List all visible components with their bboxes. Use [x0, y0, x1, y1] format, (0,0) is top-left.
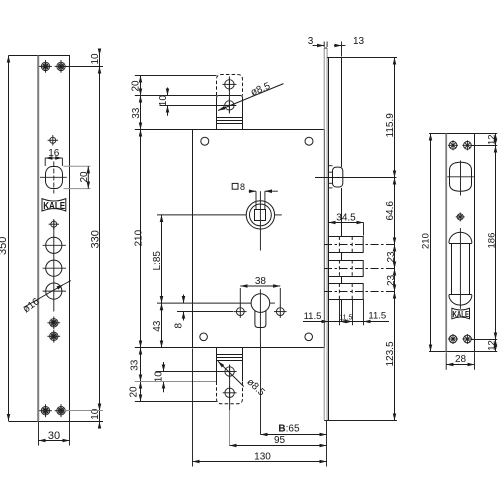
left dimension column line [140, 76, 142, 402]
svg-text:L:85: L:85 [152, 251, 163, 271]
double screw hole mid 1 [47, 316, 60, 329]
bottom mounting tab solid part [217, 348, 243, 382]
dimension 3 [308, 36, 327, 47]
top tab serrations [217, 118, 243, 124]
small hole [48, 135, 58, 145]
svg-text:12: 12 [486, 340, 497, 351]
latch centerline [315, 177, 397, 179]
follower hub U1 [157, 191, 282, 250]
svg-text:210: 210 [134, 229, 145, 246]
svg-text:64.6: 64.6 [385, 201, 396, 221]
dimension 13 [334, 36, 364, 56]
deadbolt hole 2 [43, 260, 66, 276]
dimension 186 [487, 146, 498, 340]
body corner hole top-left [201, 137, 209, 145]
svg-text:10: 10 [90, 53, 101, 65]
deadbolt slot strike [449, 228, 472, 309]
deadbolt hole 3 [43, 283, 66, 299]
dimension 115.9 [385, 58, 396, 178]
svg-text:43: 43 [152, 320, 163, 332]
svg-text:95: 95 [274, 435, 286, 446]
svg-text:123.5: 123.5 [385, 341, 396, 366]
label square 8 [232, 182, 278, 209]
extension top case [342, 57, 398, 59]
extension top holes [472, 145, 498, 147]
svg-text:23: 23 [386, 274, 397, 286]
dimension 130 [193, 349, 327, 467]
top tab hole lower [222, 98, 236, 112]
case back line segments [341, 58, 343, 322]
deadbolt 2 side [324, 260, 397, 277]
right dimension column line [394, 58, 396, 421]
latch opening [40, 162, 67, 194]
svg-text:330: 330 [90, 230, 102, 248]
svg-text:20: 20 [129, 386, 140, 398]
label diameter 16 leader [21, 281, 71, 316]
svg-text:210: 210 [421, 233, 432, 249]
cylinder fixing hole left [234, 305, 247, 318]
dimension 33 bottom arrows [129, 348, 140, 382]
svg-text:33: 33 [129, 359, 140, 371]
cylinder fixing hole right [274, 305, 287, 318]
svg-text:130: 130 [254, 451, 271, 462]
top mounting tab hidden part [217, 75, 243, 96]
deadbolt 1 side [324, 237, 397, 254]
extension lines left bottom [156, 371, 225, 373]
svg-text:20: 20 [131, 80, 142, 92]
dimension 20 bottom arrows [129, 382, 141, 402]
strike screw hole top-left [448, 140, 458, 150]
right dimension column strike [495, 134, 497, 352]
screw hole bottom-right [55, 404, 68, 417]
dimension B:65 [260, 343, 326, 435]
deadbolt 3 side [324, 284, 397, 301]
dimension 64.6 [385, 178, 396, 245]
dimension 10 top [158, 88, 169, 116]
extension bottom holes [472, 339, 498, 341]
svg-text:8: 8 [240, 182, 245, 192]
screw hole bottom-left [39, 404, 52, 417]
case front line [328, 58, 330, 421]
svg-text:115.9: 115.9 [385, 113, 396, 138]
dimension 38 [240, 276, 280, 306]
dimension 95 [230, 435, 327, 446]
svg-text:B:65: B:65 [278, 424, 300, 435]
bottom tab hole upper [223, 365, 237, 379]
deadbolt hole 1 [43, 237, 66, 253]
body corner hole bottom-left [200, 333, 208, 341]
faceplate outline [9, 56, 104, 422]
bottom tab hole lower [223, 386, 237, 400]
dimension 10 bottom [90, 408, 101, 427]
dimension 10 top [90, 49, 101, 67]
strike plate outline [429, 134, 497, 352]
lock body outline [135, 130, 325, 348]
dimension 10 bottom tab [153, 362, 164, 392]
svg-text:10: 10 [158, 95, 169, 107]
dimension 210 arrows [134, 130, 145, 348]
dimension 12 bottom [486, 340, 497, 352]
dimension 43 [152, 303, 163, 347]
svg-text:3: 3 [308, 36, 314, 47]
dimension 34.5 [329, 212, 364, 235]
latch opening strike [447, 161, 474, 196]
latch bolt side view [328, 166, 343, 188]
svg-text:10: 10 [90, 408, 101, 420]
svg-text:11.5: 11.5 [368, 311, 386, 322]
KALE logo left [42, 199, 66, 213]
faceplate edge-on double line [324, 48, 327, 420]
screw hole top-right [55, 60, 68, 73]
dimension L:85 [152, 215, 163, 303]
body corner hole top-right [305, 137, 313, 145]
svg-text:13: 13 [353, 36, 365, 47]
svg-text:30: 30 [48, 430, 60, 442]
dimension 23 first [386, 245, 397, 269]
svg-text:38: 38 [255, 276, 267, 287]
strike screw hole bottom-left [448, 334, 458, 344]
svg-text:10: 10 [153, 371, 164, 383]
dimension 20 latch [64, 166, 91, 188]
double screw hole mid 2 [47, 330, 60, 343]
dimension 23 second [386, 269, 397, 292]
dimension 20 top arrows [131, 76, 142, 96]
top mounting tab solid part [217, 96, 243, 130]
case top edge [327, 57, 341, 59]
deadbolt hole circles column centerline [53, 220, 55, 312]
dimension 210 [421, 134, 432, 352]
dimension 16 [45, 148, 62, 166]
label diameter 8.5 bottom leader [218, 361, 267, 398]
svg-text:23: 23 [386, 251, 397, 263]
dimension 8 [174, 295, 185, 329]
KALE logo right [452, 308, 470, 319]
extension line bottom holes [64, 410, 103, 412]
svg-text:11.5: 11.5 [304, 311, 322, 322]
bottom tab centerline [229, 365, 231, 410]
dimension 11.5 row [303, 311, 389, 322]
top tab centerline [228, 77, 230, 114]
bottom tab hidden part [217, 382, 243, 404]
dimension 33 top arrows [131, 96, 142, 130]
svg-text:KALE: KALE [43, 201, 65, 212]
extension line top holes [64, 66, 103, 68]
bottom tab serrations [217, 355, 243, 361]
svg-text:33: 33 [131, 107, 142, 119]
screw hole top-left [39, 60, 52, 73]
dimension 11.5 x3 extension lines [340, 300, 364, 326]
extension lines left top [135, 75, 217, 77]
dimension 123.5 [385, 292, 396, 421]
top tab hole upper [222, 77, 236, 91]
dimension 350 [0, 56, 9, 422]
svg-text:KALE: KALE [453, 309, 470, 319]
small hole 2 [49, 219, 59, 229]
dimension 30 [39, 422, 70, 446]
svg-text:28: 28 [455, 354, 467, 365]
euro cylinder profile [157, 289, 275, 342]
svg-text:11.5: 11.5 [339, 315, 352, 322]
svg-text:34.5: 34.5 [336, 212, 356, 223]
svg-text:12: 12 [486, 134, 497, 145]
svg-text:350: 350 [0, 237, 9, 255]
body corner hole bottom-right [305, 333, 313, 341]
dimension 12 top [486, 134, 497, 146]
strike middle hole [456, 212, 465, 221]
strike screw hole bottom-right [462, 334, 472, 344]
extension faceplate bottom [324, 420, 397, 422]
svg-text:186: 186 [487, 233, 498, 249]
svg-text:8: 8 [174, 323, 185, 329]
dimension 330 [90, 66, 102, 410]
svg-text:16: 16 [48, 148, 60, 159]
dimension 28 [446, 352, 474, 370]
extension line fixing holes [177, 311, 234, 313]
strike screw hole top-right [462, 140, 472, 150]
label diameter 8.5 top leader [218, 81, 284, 111]
svg-text:20: 20 [79, 171, 90, 183]
